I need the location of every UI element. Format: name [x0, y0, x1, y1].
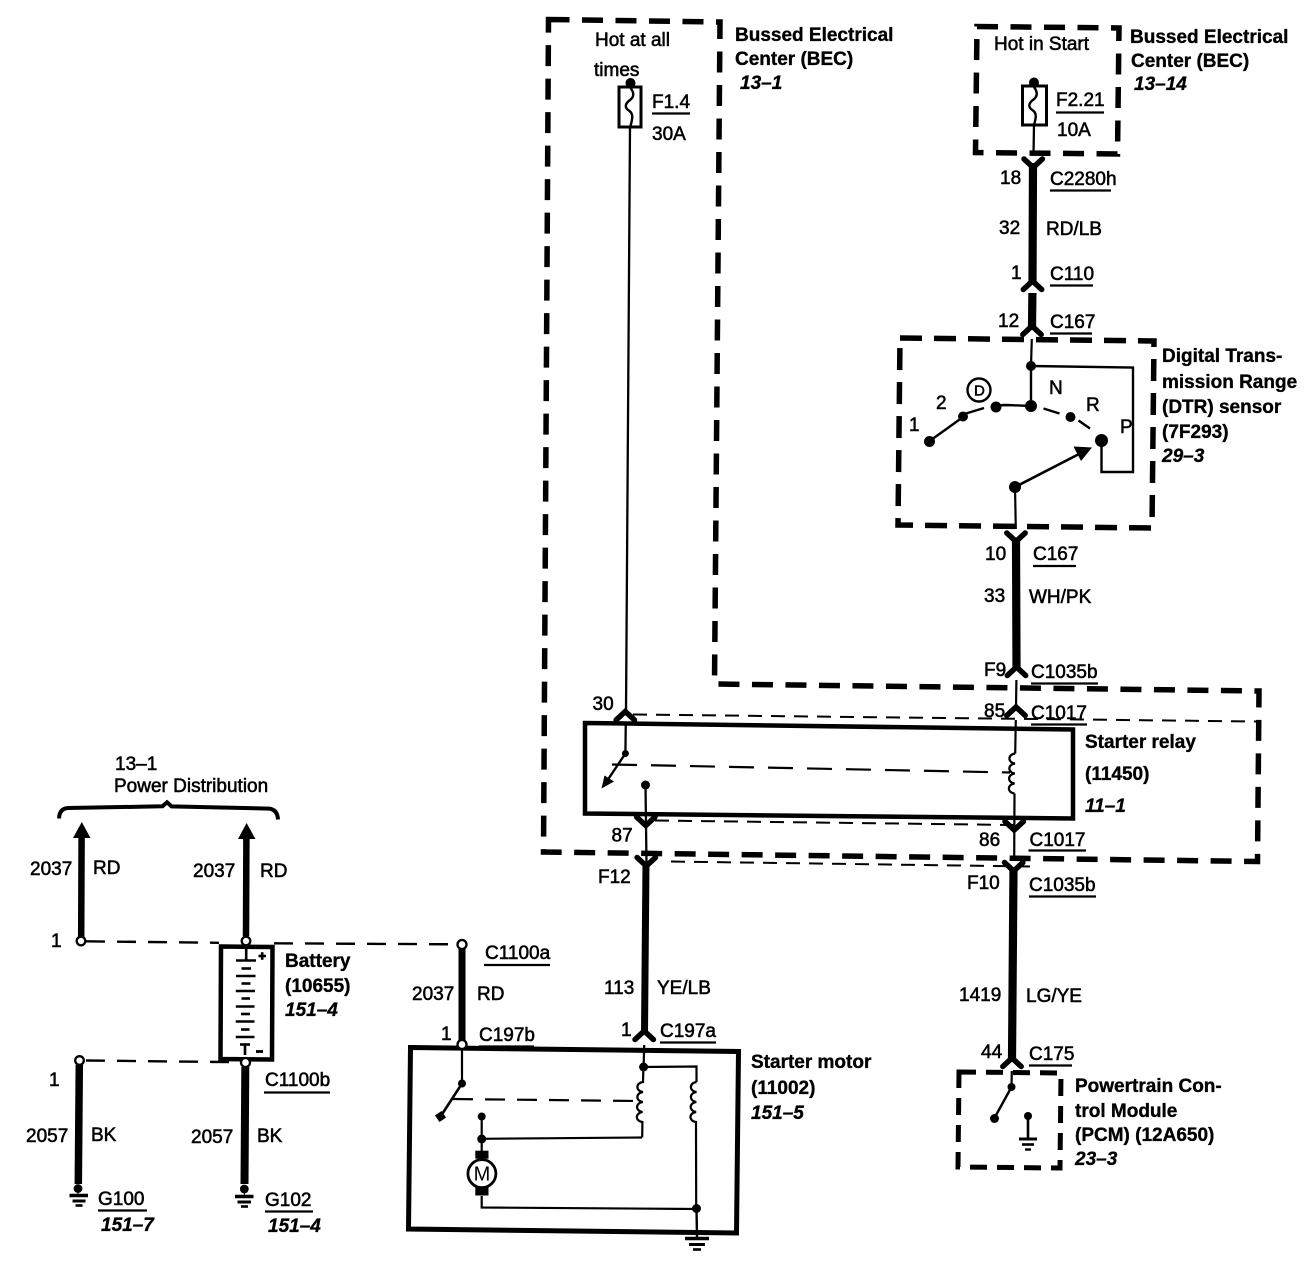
svg-text:(DTR) sensor: (DTR) sensor — [1162, 397, 1282, 418]
svg-text:LG/YE: LG/YE — [1026, 986, 1082, 1007]
svg-text:1: 1 — [1011, 263, 1022, 284]
DTR contact 2 — [958, 412, 968, 422]
dashed wire: battery + terminal to C1100a — [274, 943, 456, 944]
svg-text:Bussed Electrical: Bussed Electrical — [1130, 27, 1288, 48]
starter relay inner dashed boundary (top) — [633, 715, 1258, 722]
label: 1 (ground branch) — [49, 1070, 60, 1091]
node: ground junction — [692, 1204, 701, 1213]
svg-text:30: 30 — [593, 694, 614, 715]
battery - mark — [256, 1050, 263, 1053]
hold-in winding (right coil) — [690, 1082, 696, 1209]
solenoid switch lower contact — [478, 1113, 486, 1121]
svg-text:151–7: 151–7 — [101, 1215, 155, 1236]
relay coil (pins 85/86) — [1009, 754, 1015, 794]
pull-in winding (left coil) — [637, 1067, 644, 1138]
svg-text:C1100a: C1100a — [485, 943, 551, 964]
svg-text:13–1: 13–1 — [115, 754, 157, 775]
svg-text:(11002): (11002) — [751, 1078, 815, 1099]
wire: lower contact down to motor junction — [481, 1117, 483, 1140]
label: 113 YE/LB — [604, 978, 711, 999]
svg-text:C167: C167 — [1033, 544, 1078, 565]
svg-text:Battery: Battery — [285, 951, 351, 972]
svg-text:10: 10 — [985, 544, 1006, 565]
wire 2037 RD (battery feed, thick with up arrow) — [238, 823, 256, 839]
label: F12 — [598, 867, 631, 888]
fuse F1.4 (30A) — [619, 87, 641, 127]
label: 85 C1017 — [984, 701, 1087, 725]
label: 1419 LG/YE — [959, 985, 1082, 1007]
wire 2057 BK (left, to G100) — [78, 1065, 79, 1184]
arrow at BEC boundary (F10) — [1005, 863, 1023, 872]
svg-text:32: 32 — [999, 218, 1020, 239]
svg-text:YE/LB: YE/LB — [657, 978, 711, 999]
arrow at C167 — [1023, 326, 1041, 335]
svg-text:(PCM) (12A650): (PCM) (12A650) — [1075, 1125, 1214, 1146]
svg-text:C197a: C197a — [660, 1021, 716, 1042]
DTR arc segment 2-D — [966, 408, 984, 414]
wire into starter motor solenoid junction — [642, 1045, 645, 1067]
wire: junction down to rotor common contact — [1030, 366, 1032, 406]
label: 1 C110 — [1011, 263, 1094, 286]
label: F10 C1035b — [967, 873, 1096, 897]
svg-text:Hot in Start: Hot in Start — [994, 34, 1090, 55]
svg-text:(10655): (10655) — [285, 976, 351, 997]
label: 2057 BK (left) — [26, 1125, 117, 1147]
wire: motor to ground junction — [482, 1196, 697, 1209]
PCM internal ground symbol — [1019, 1139, 1037, 1150]
svg-text:C175: C175 — [1029, 1044, 1074, 1065]
arrow below relay box (pin 86) — [1005, 822, 1023, 831]
wire: relay coil to relay box bottom — [1013, 794, 1015, 861]
svg-text:F2.21: F2.21 — [1056, 90, 1105, 111]
svg-text:(11450): (11450) — [1085, 764, 1149, 785]
starter relay inner dashed boundary (bottom) — [655, 821, 1014, 826]
svg-text:85: 85 — [984, 701, 1005, 722]
svg-text:33: 33 — [984, 586, 1005, 607]
svg-text:Powertrain Con-: Powertrain Con- — [1075, 1076, 1222, 1097]
relay switch arm arrowhead — [602, 776, 615, 789]
svg-text:G100: G100 — [98, 1189, 144, 1210]
wire: relay pin 87 down through BEC boundary (F12) — [646, 785, 647, 864]
fuse F2.21 (10A) — [1023, 86, 1047, 125]
svg-text:trol Module: trol Module — [1075, 1101, 1177, 1122]
starter relay (11450) body (solid box) — [585, 723, 1073, 819]
svg-text:151–4: 151–4 — [285, 1000, 338, 1021]
svg-text:29–3: 29–3 — [1161, 446, 1205, 467]
wire 113 YE/LB: F12 down to starter motor C197a (thick) — [645, 862, 647, 1032]
svg-text:30A: 30A — [652, 124, 686, 145]
svg-text:11–1: 11–1 — [1085, 796, 1126, 817]
motor M brush cap top — [475, 1151, 488, 1159]
wire 32 RD/LB: C2280h down to C110 (thick) — [1028, 163, 1037, 282]
label: 33 WH/PK — [984, 586, 1092, 608]
label: 44 C175 — [981, 1042, 1074, 1066]
C197b open terminal on starter box — [458, 1040, 467, 1049]
wire: fuse F2.21 down to BEC boundary — [1032, 125, 1035, 155]
battery + mark — [259, 952, 267, 960]
label: F9 C1035b — [984, 660, 1098, 684]
DTR contact R — [1066, 412, 1076, 422]
svg-text:Bussed Electrical: Bussed Electrical — [735, 25, 893, 46]
D position circle marker — [968, 379, 991, 402]
Powertrain Control Module (PCM) enclosure (dashed) — [958, 1072, 1061, 1168]
svg-text:Center (BEC): Center (BEC) — [1131, 51, 1249, 72]
svg-text:RD: RD — [93, 858, 120, 879]
wire: C110 to C167 (thick) — [1028, 293, 1037, 327]
svg-text:10A: 10A — [1057, 120, 1091, 141]
label: 2057 BK (battery) — [191, 1126, 283, 1148]
svg-text:N: N — [1049, 378, 1063, 399]
wire: junction to pull-in winding bottom — [482, 1138, 642, 1139]
wire: relay pin 30 into switch contact — [624, 722, 627, 754]
wire 1419 LG/YE: F10 down to PCM 44 C175 (thick) — [1012, 868, 1014, 1059]
svg-text:C167: C167 — [1050, 312, 1095, 333]
svg-text:(7F293): (7F293) — [1162, 422, 1229, 443]
DTR wiper arrowhead — [1074, 447, 1093, 462]
wire: F9 to BEC boundary pin 85 — [1015, 680, 1018, 708]
PCM switch arm — [995, 1087, 1012, 1117]
svg-text:R: R — [1086, 395, 1100, 416]
svg-text:87: 87 — [612, 826, 633, 847]
svg-text:WH/PK: WH/PK — [1029, 587, 1092, 608]
starter relay mechanical link (dashed) — [612, 765, 1010, 773]
label: Starter relay (11450) 11-1 — [1085, 732, 1196, 817]
svg-text:mission Range: mission Range — [1162, 372, 1297, 393]
svg-text:BK: BK — [91, 1125, 117, 1146]
svg-text:12: 12 — [998, 311, 1019, 332]
svg-text:P: P — [1120, 417, 1133, 438]
svg-text:13–14: 13–14 — [1134, 74, 1187, 95]
label: 1 C197a — [621, 1020, 716, 1043]
svg-text:Center (BEC): Center (BEC) — [735, 49, 853, 70]
svg-text:44: 44 — [981, 1042, 1003, 1063]
arrow at relay box bottom (pin 87) — [637, 817, 655, 826]
wire 2037 RD: C1100a down to C197b (thick) — [459, 948, 466, 1040]
node: C1100a open terminal — [458, 940, 467, 949]
brace (power distribution bracket) — [59, 802, 278, 819]
arrow into C197a — [635, 1031, 653, 1040]
label: 86 C1017 — [979, 830, 1086, 851]
label: Powertrain Control Module (PCM) (12A650) 23-3 — [1074, 1076, 1222, 1170]
svg-text:151–4: 151–4 — [268, 1216, 321, 1237]
svg-text:F9: F9 — [984, 660, 1006, 681]
svg-text:Starter relay: Starter relay — [1085, 732, 1196, 753]
svg-text:RD: RD — [477, 984, 504, 1005]
arrow at C110 — [1023, 281, 1041, 290]
svg-text:2037: 2037 — [193, 861, 235, 882]
svg-text:2037: 2037 — [412, 984, 454, 1005]
label: F1.4 / 30A — [652, 92, 690, 145]
label: 12 C167 — [998, 311, 1095, 334]
svg-text:Starter motor: Starter motor — [751, 1052, 872, 1073]
label: 18 C2280h — [1000, 168, 1117, 191]
DTR arc segment common-R — [1044, 409, 1060, 414]
wire: ground junction through box bottom — [695, 1209, 698, 1238]
svg-text:C1017: C1017 — [1031, 703, 1087, 724]
arrow at C175 — [1003, 1058, 1021, 1067]
arrow at BEC 13-14 boundary (18 C2280h) — [1024, 159, 1042, 168]
arrow at relay pin 85 — [1007, 707, 1025, 716]
svg-text:RD: RD — [260, 861, 287, 882]
ground G102 — [240, 1185, 249, 1194]
label: G100 151-7 — [98, 1189, 155, 1236]
svg-text:Digital Trans-: Digital Trans- — [1162, 346, 1282, 367]
svg-text:C1035b: C1035b — [1029, 875, 1096, 896]
svg-text:2057: 2057 — [26, 1126, 68, 1147]
label: Bussed Electrical Center (BEC) 13-14 — [1130, 27, 1288, 95]
label: Digital Transmission Range (DTR) sensor (7F293) 29-3 — [1161, 346, 1297, 467]
wire 2057 BK (battery -, to G102) — [241, 1067, 250, 1184]
arrow below DTR box (10 C167) — [1007, 533, 1025, 542]
ground G100 — [74, 1184, 83, 1193]
svg-text:C2280h: C2280h — [1050, 169, 1117, 190]
label: Hot at all times — [594, 30, 670, 81]
svg-text:Power Distribution: Power Distribution — [114, 776, 268, 797]
svg-text:13–1: 13–1 — [740, 73, 782, 94]
svg-text:18: 18 — [1000, 168, 1021, 189]
node: motor feed junction — [477, 1135, 486, 1144]
label: 2037 RD (battery) — [193, 861, 287, 882]
svg-text:23–3: 23–3 — [1074, 1149, 1118, 1170]
solenoid switch arm tip — [435, 1111, 446, 1122]
label: Bussed Electrical Center (BEC) 13-1 — [735, 25, 893, 94]
DTR contact P — [1095, 434, 1108, 447]
label: Hot in Start — [994, 34, 1090, 55]
svg-text:F10: F10 — [967, 873, 1000, 894]
label: C1100b — [264, 1070, 330, 1093]
wire: wiper down out of DTR box — [1014, 487, 1017, 529]
wire: junction down to motor — [481, 1139, 483, 1152]
node: battery positive terminal (open) — [242, 937, 251, 946]
DTR wiper pivot node — [1009, 481, 1021, 493]
svg-text:1: 1 — [909, 415, 920, 436]
label: G102 151-4 — [265, 1190, 321, 1237]
label: C1100a — [484, 943, 551, 965]
Bussed Electrical Center (BEC) 13-1 enclosure (dashed, contains fuse F1.4 and starter relay) — [544, 20, 1260, 862]
node: fuse F1.4 top terminal — [626, 78, 636, 88]
DTR arc segment D-common — [998, 405, 1031, 407]
wire: C197b down to solenoid switch contact — [461, 1049, 463, 1084]
DTR wiper arm — [1015, 453, 1081, 487]
node 1: open terminal left — [77, 937, 86, 946]
DTR arc segment R-P — [1079, 421, 1091, 429]
label: 1 (left feed) — [51, 931, 62, 952]
label: 30 — [593, 694, 614, 715]
starter motor (11002) body (solid box) — [409, 1048, 739, 1234]
svg-text:1419: 1419 — [959, 985, 1001, 1006]
PCM internal ground stem — [1027, 1116, 1030, 1139]
battery (10655) body — [221, 947, 273, 1060]
label: 32 RD/LB — [999, 218, 1102, 240]
label: Starter motor (11002) 151-5 — [751, 1052, 872, 1124]
label: 87 — [612, 826, 633, 847]
svg-text:C1100b: C1100b — [265, 1070, 330, 1091]
wire: pin 85 into relay coil — [1014, 720, 1017, 754]
svg-text:113: 113 — [604, 978, 634, 999]
starter motor mechanical link (dashed) — [453, 1099, 639, 1101]
node: fuse F2.21 top terminal — [1029, 78, 1039, 88]
motor M — [468, 1160, 496, 1188]
dashed wire: battery + to left feed — [86, 941, 219, 943]
PCM switch arm end node — [990, 1114, 999, 1123]
relay switch common contact (pin 30) — [622, 750, 629, 757]
wire: junction to hold-in winding top — [644, 1067, 697, 1083]
svg-text:C1035b: C1035b — [1031, 662, 1098, 683]
svg-text:1: 1 — [49, 1070, 60, 1091]
wire 2037 RD (left feed, thick with up arrow) — [73, 822, 91, 838]
node 1: open terminal left (ground branch) — [75, 1056, 84, 1065]
svg-text:Hot at all: Hot at all — [595, 30, 670, 51]
DTR contact D — [991, 402, 1002, 413]
svg-text:1: 1 — [441, 1024, 452, 1045]
relay switch arm (normally open) — [607, 754, 625, 782]
DTR arc segment 1-2 — [931, 419, 961, 441]
relay contact pin 87 — [641, 781, 650, 790]
label: 10 C167 — [985, 544, 1078, 566]
svg-text:RD/LB: RD/LB — [1046, 219, 1102, 240]
battery internal plates — [236, 949, 256, 1055]
node: DTR feed junction — [1026, 361, 1036, 371]
svg-text:BK: BK — [257, 1126, 283, 1147]
wire: fuse F1.4 output down to starter relay pin 30 — [626, 127, 630, 712]
PCM input contact — [1008, 1083, 1016, 1091]
label: 2037 RD (C1100a branch) — [412, 984, 504, 1005]
svg-text:151–5: 151–5 — [751, 1103, 804, 1124]
N-R-P bracket conductor — [1031, 366, 1133, 472]
arrow at F9 C1035b — [1007, 667, 1025, 676]
label: 1 C197b — [441, 1024, 535, 1047]
wire 33 WH/PK: C167 down to F9 C1035b (thick) — [1012, 538, 1021, 667]
arrow into relay pin 30 — [616, 712, 634, 721]
label: 2037 RD (left) — [30, 858, 120, 880]
Bussed Electrical Center (BEC) 13-14 enclosure (dashed, contains fuse F2.21) — [976, 27, 1120, 155]
wire: C167 into DTR sensor — [1030, 339, 1033, 366]
arrow at BEC boundary (F12) — [637, 858, 655, 867]
DTR common contact — [1025, 400, 1037, 412]
svg-text:G102: G102 — [265, 1190, 311, 1211]
starter motor case ground symbol — [685, 1239, 709, 1250]
svg-text:2057: 2057 — [191, 1127, 233, 1148]
svg-text:C1017: C1017 — [1030, 830, 1086, 851]
label: Battery (10655) 151-4 — [285, 951, 351, 1021]
solenoid switch arm — [443, 1084, 463, 1114]
DTR contact 1 — [924, 436, 935, 447]
svg-text:2037: 2037 — [30, 859, 72, 880]
svg-text:C197b: C197b — [479, 1025, 535, 1046]
solenoid feed junction node — [639, 1063, 648, 1072]
label: 13-1 Power Distribution — [114, 754, 268, 797]
svg-text:C110: C110 — [1050, 264, 1094, 285]
svg-text:2: 2 — [936, 393, 947, 414]
svg-text:1: 1 — [621, 1020, 632, 1041]
label: F2.21 / 10A — [1056, 90, 1105, 141]
svg-text:F1.4: F1.4 — [652, 92, 690, 113]
starter relay inner dashed boundary (lower extra) — [671, 862, 1030, 867]
dashed wire: battery - to left ground branch — [86, 1061, 240, 1063]
svg-text:1: 1 — [51, 931, 62, 952]
motor M brush cap bottom — [475, 1187, 488, 1195]
node: battery negative terminal (open) — [241, 1058, 250, 1067]
PCM internal ground node — [1024, 1112, 1032, 1120]
wire: C175 into PCM — [1010, 1071, 1012, 1087]
svg-text:times: times — [594, 60, 639, 81]
svg-text:D: D — [974, 383, 985, 400]
svg-text:F12: F12 — [598, 867, 631, 888]
svg-text:86: 86 — [979, 830, 1000, 851]
DTR position labels — [909, 415, 920, 436]
Digital Transmission Range (DTR) sensor enclosure (dashed) — [898, 338, 1154, 528]
solenoid switch upper contact — [458, 1080, 466, 1088]
